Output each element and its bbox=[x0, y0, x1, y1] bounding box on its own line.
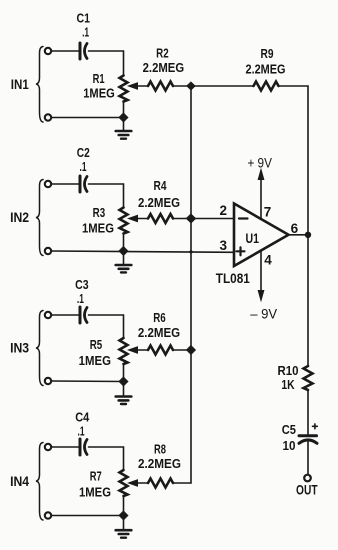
svg-text:6: 6 bbox=[291, 221, 299, 236]
wire R9 to right rail, down to output node bbox=[279, 86, 309, 235]
svg-text:.1: .1 bbox=[80, 159, 87, 174]
wire top terminal to C4 bbox=[52, 446, 79, 448]
resistor R9 bbox=[254, 82, 279, 91]
op-amp U1 triangle bbox=[234, 204, 289, 267]
brace IN2 bbox=[36, 180, 43, 256]
terminal IN3 top bbox=[45, 312, 51, 318]
wire output node down to R10 bbox=[307, 235, 309, 366]
brace IN4 bbox=[36, 443, 43, 521]
-9V supply arrow (pin 4) bbox=[260, 251, 262, 294]
svg-text:R8: R8 bbox=[154, 442, 166, 457]
svg-text:4: 4 bbox=[264, 253, 272, 268]
svg-text:1MEG: 1MEG bbox=[82, 221, 114, 236]
wire C5 to OUT terminal bbox=[307, 442, 309, 475]
terminal IN4 bottom bbox=[45, 512, 51, 518]
svg-text:R6: R6 bbox=[153, 310, 166, 325]
wire bottom rail IN1 bbox=[52, 117, 124, 119]
svg-text:TL081: TL081 bbox=[216, 270, 250, 286]
terminal IN2 bottom bbox=[45, 248, 51, 254]
svg-text:R2: R2 bbox=[156, 46, 169, 61]
capacitor C2 bbox=[79, 176, 82, 192]
svg-text:C4: C4 bbox=[75, 410, 90, 425]
wire C1 to corner and down to R1 bbox=[89, 51, 124, 76]
+9V supply arrow (pin 7) bbox=[260, 176, 262, 219]
svg-text:IN1: IN1 bbox=[11, 77, 29, 92]
wire C4 to corner and down to R7 bbox=[89, 447, 124, 470]
svg-text:.1: .1 bbox=[78, 424, 85, 439]
plus sign C5 bbox=[313, 424, 318, 429]
svg-text:R9: R9 bbox=[261, 46, 274, 61]
svg-text:1MEG: 1MEG bbox=[79, 353, 111, 368]
svg-text:+ 9V: + 9V bbox=[247, 155, 272, 171]
crossing dot at pin3 wire bbox=[189, 250, 192, 253]
svg-text:2.2MEG: 2.2MEG bbox=[143, 60, 185, 75]
svg-text:3: 3 bbox=[219, 238, 227, 253]
svg-text:.1: .1 bbox=[77, 291, 84, 306]
wire bus to R9 bbox=[191, 85, 254, 87]
wire bottom rail IN3 bbox=[52, 380, 124, 383]
terminal OUT bbox=[304, 475, 311, 482]
wire top terminal to C3 bbox=[52, 314, 79, 316]
junction dot IN2/ground bbox=[119, 246, 129, 256]
wire R7 bottom to rail bbox=[123, 496, 125, 516]
wiper arrow R5 bbox=[129, 347, 138, 353]
wire R5 bottom to rail bbox=[123, 364, 125, 382]
wire top terminal to C1 bbox=[52, 50, 79, 52]
svg-text:2.2MEG: 2.2MEG bbox=[138, 325, 180, 340]
ground (section 3) bbox=[123, 382, 125, 396]
svg-text:10: 10 bbox=[283, 438, 296, 453]
wire C2 to corner and down to R3 bbox=[89, 184, 124, 208]
wire R3 bottom to rail bbox=[123, 234, 125, 252]
wire R2 to summing bus bbox=[173, 85, 191, 87]
junction dot IN3/ground bbox=[119, 377, 129, 387]
brace IN3 bbox=[36, 311, 43, 386]
wire bottom rail IN4 bbox=[52, 515, 124, 517]
summing bus wire (vertical) bbox=[190, 86, 192, 483]
svg-text:2.2MEG: 2.2MEG bbox=[138, 195, 180, 210]
svg-text:.1: .1 bbox=[82, 25, 89, 40]
wire R1 bottom to rail bbox=[123, 102, 125, 118]
wiper arrow R1 bbox=[129, 83, 138, 89]
junction dot IN1/ground bbox=[119, 113, 129, 123]
wire bus node to pin 2 bbox=[191, 218, 234, 220]
terminal IN1 top bbox=[45, 48, 51, 54]
svg-text:R7: R7 bbox=[90, 469, 102, 484]
junction node (R4/bus/pin2) bbox=[186, 214, 196, 224]
wire R10 to C5 bbox=[307, 390, 309, 434]
ground (section 2) bbox=[123, 251, 125, 264]
terminal IN1 bottom bbox=[45, 114, 51, 120]
junction dot IN4/ground bbox=[119, 511, 129, 521]
wiper arrow R7 bbox=[129, 480, 138, 486]
terminal IN2 top bbox=[45, 181, 51, 187]
svg-text:R10: R10 bbox=[278, 363, 299, 378]
svg-text:C5: C5 bbox=[282, 422, 296, 437]
terminal IN4 top bbox=[45, 444, 51, 450]
junction dot output node bbox=[305, 232, 311, 238]
svg-text:2.2MEG: 2.2MEG bbox=[138, 456, 181, 471]
wire R6 to summing bus bbox=[173, 349, 191, 351]
svg-text:R4: R4 bbox=[154, 178, 168, 193]
svg-text:C2: C2 bbox=[77, 145, 90, 160]
capacitor C3 bbox=[79, 307, 82, 323]
wire output pin 6 to rail bbox=[289, 234, 309, 236]
minus sign (inverting input) bbox=[239, 217, 248, 219]
svg-text:R1: R1 bbox=[93, 71, 105, 86]
svg-text:7: 7 bbox=[264, 205, 272, 220]
svg-text:1K: 1K bbox=[281, 377, 295, 392]
junction node A (R2/R9/bus) bbox=[187, 82, 196, 91]
ground (section 1) bbox=[123, 118, 125, 131]
terminal IN3 bottom bbox=[45, 378, 51, 384]
svg-text:OUT: OUT bbox=[296, 483, 318, 498]
wire bottom rail IN2 to pin 3 bbox=[52, 251, 235, 252]
svg-text:U1: U1 bbox=[246, 230, 260, 246]
svg-text:C1: C1 bbox=[77, 11, 91, 26]
svg-text:R5: R5 bbox=[90, 337, 103, 352]
capacitor C4 bbox=[79, 439, 82, 455]
svg-text:1MEG: 1MEG bbox=[79, 485, 111, 500]
brace IN1 bbox=[36, 47, 43, 123]
svg-text:2: 2 bbox=[219, 203, 227, 218]
wire R8 to summing bus corner bbox=[173, 482, 191, 484]
plus sign (non-inverting input) bbox=[237, 247, 245, 255]
svg-text:1MEG: 1MEG bbox=[83, 86, 115, 101]
ground (section 4) bbox=[123, 516, 125, 529]
svg-text:IN4: IN4 bbox=[10, 474, 29, 489]
wire C3 to corner and down to R5 bbox=[89, 315, 124, 338]
svg-text:C3: C3 bbox=[75, 277, 89, 292]
wiper arrow R3 bbox=[129, 215, 138, 221]
svg-text:IN3: IN3 bbox=[10, 341, 29, 356]
svg-text:R3: R3 bbox=[93, 205, 106, 220]
wire R4 to summing bus bbox=[173, 218, 191, 220]
svg-text:– 9V: – 9V bbox=[250, 306, 278, 322]
junction node (R6/bus) bbox=[186, 345, 196, 355]
capacitor C1 bbox=[79, 43, 82, 59]
svg-text:2.2MEG: 2.2MEG bbox=[246, 62, 286, 77]
wire top terminal to C2 bbox=[52, 183, 79, 185]
svg-text:IN2: IN2 bbox=[10, 210, 29, 225]
